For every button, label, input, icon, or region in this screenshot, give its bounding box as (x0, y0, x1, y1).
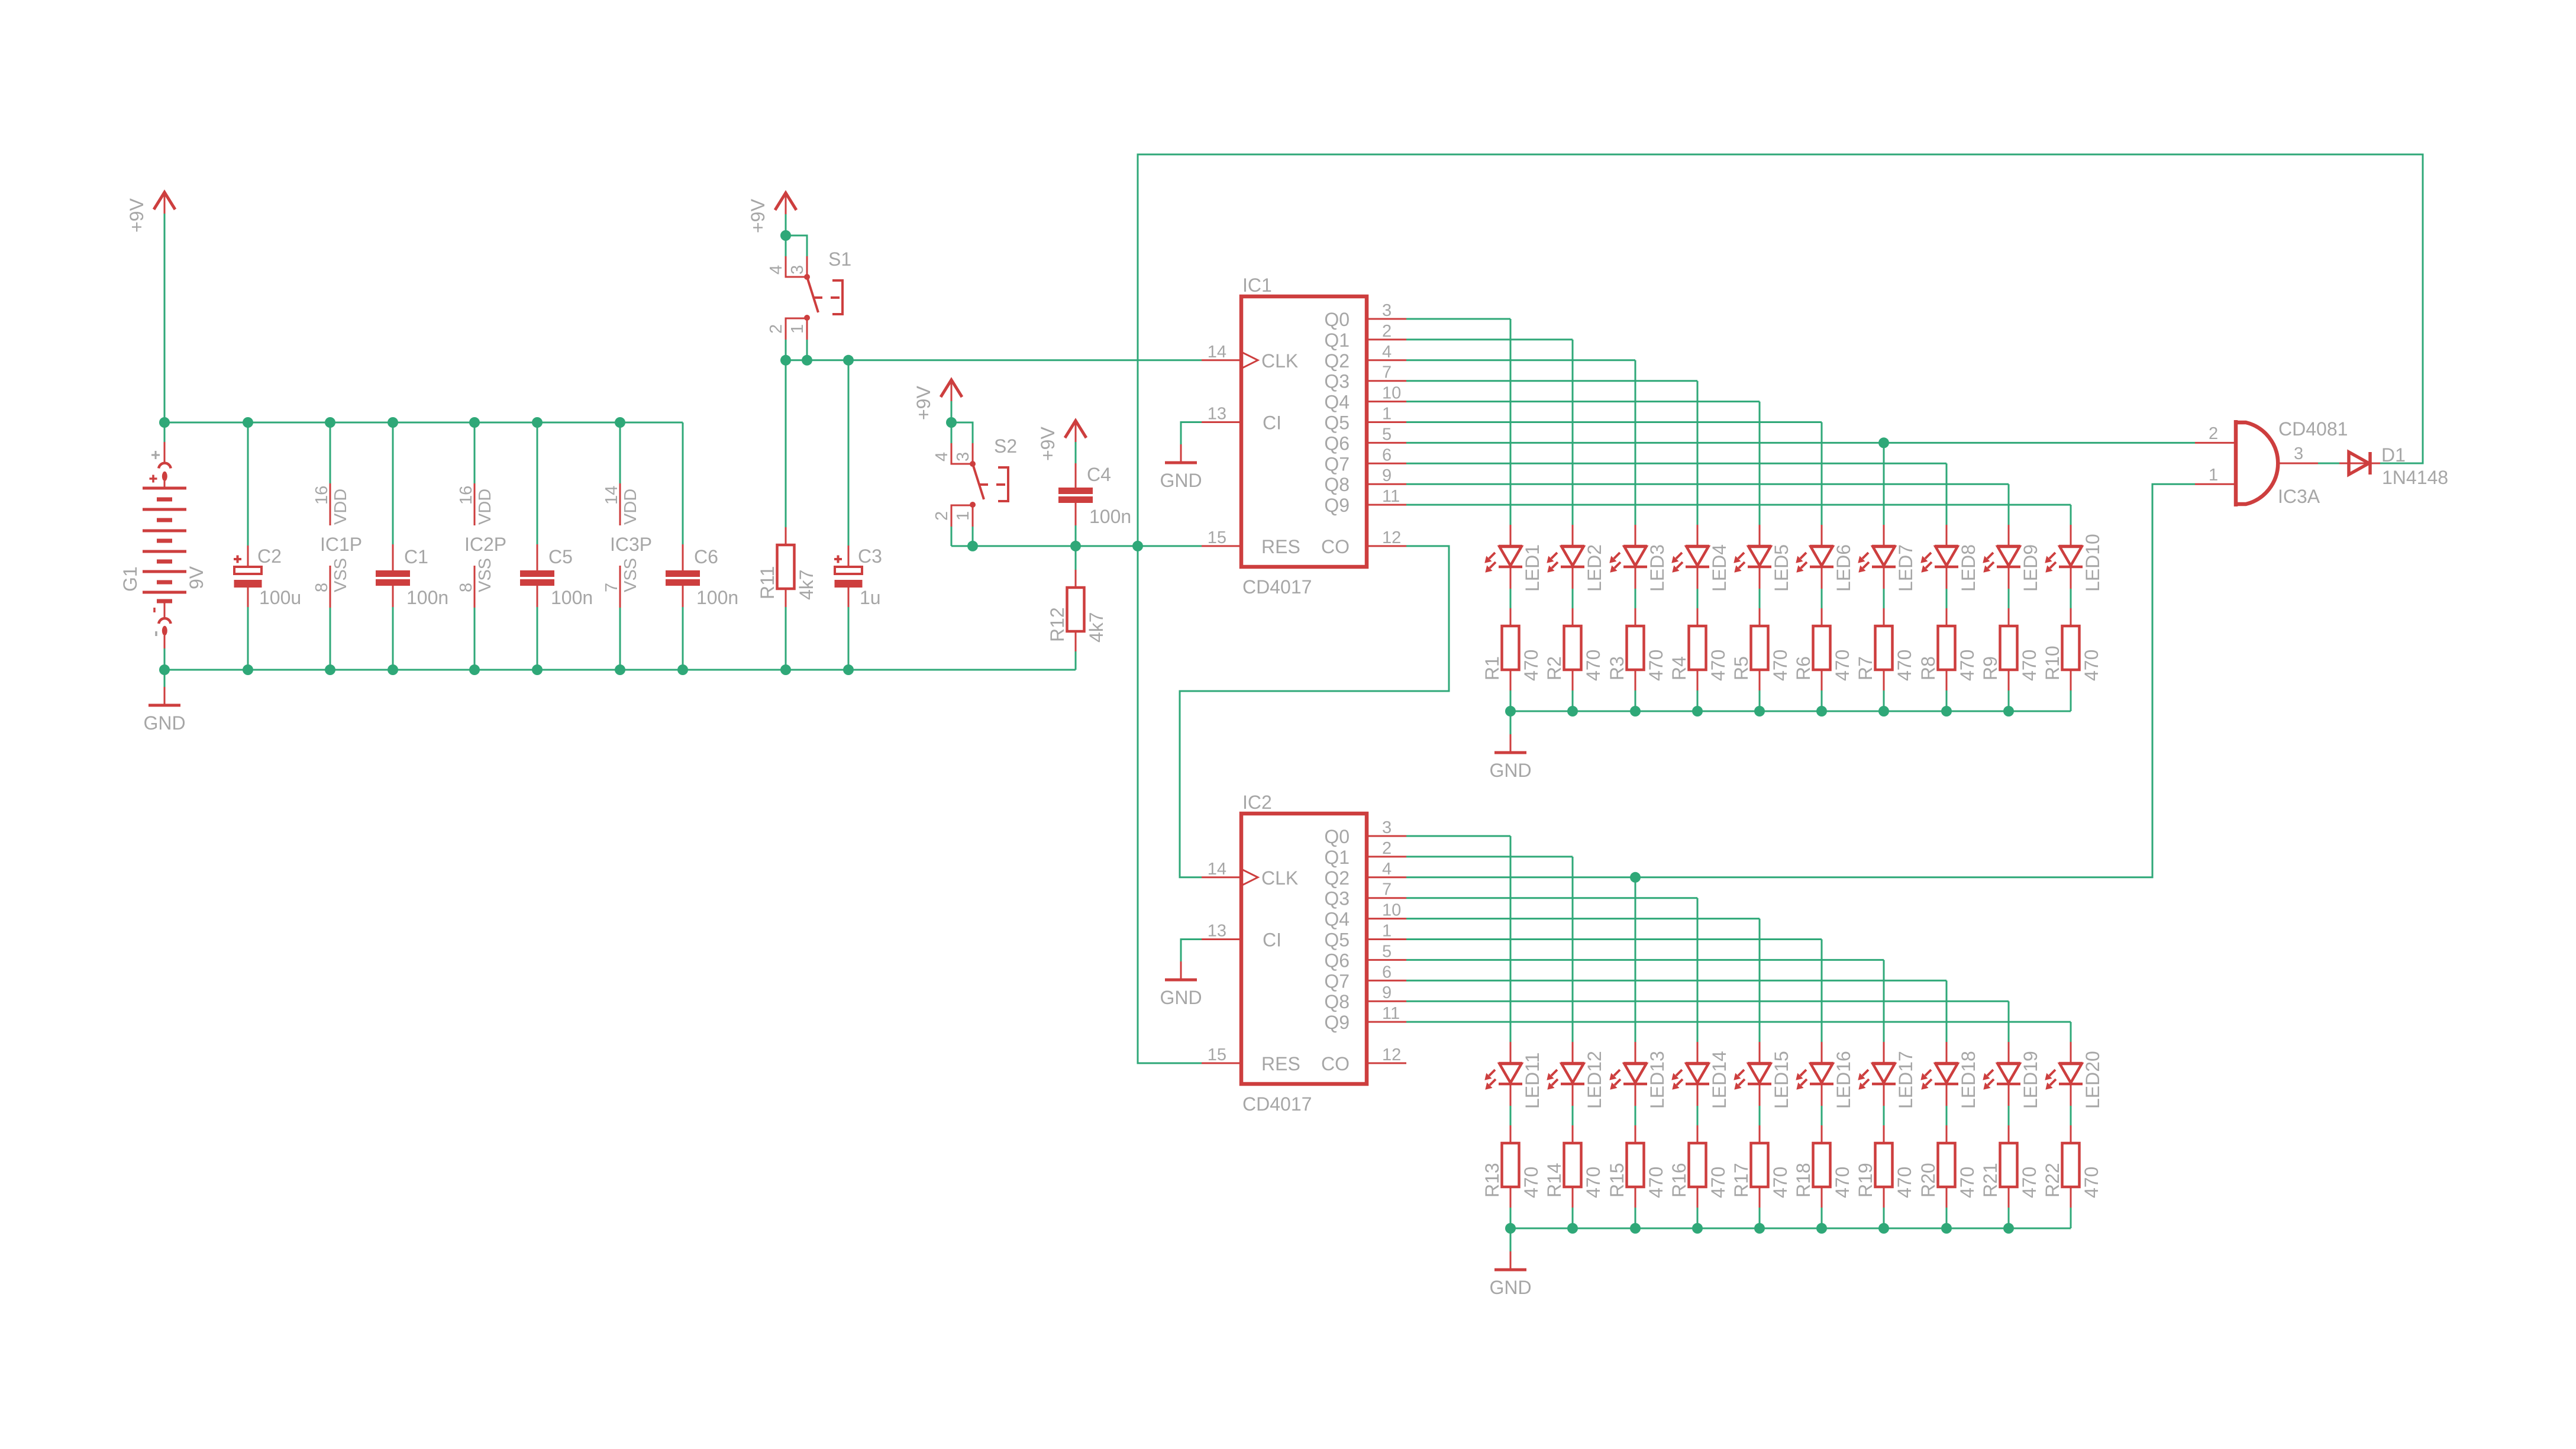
pin 3 output (2278, 463, 2318, 464)
wire R11 bottom (785, 607, 787, 670)
resistor R2 470 (1544, 608, 1604, 690)
svg-text:11: 11 (1382, 487, 1400, 506)
junction CLK1 x=1434 (843, 355, 854, 366)
svg-text:Q1: Q1 (1324, 330, 1350, 351)
svg-text:11: 11 (1382, 1004, 1400, 1023)
resistor R15 470 (1606, 1125, 1667, 1208)
junction +9V rail x=278 (159, 417, 170, 428)
wire LED9 to R9 (2008, 589, 2010, 608)
svg-text:470: 470 (1645, 650, 1667, 681)
LED LED10 (2045, 525, 2103, 592)
wire R1 to GND rail (1510, 690, 1512, 711)
LED LED19 (1983, 1042, 2041, 1109)
resistor R3 470 (1606, 608, 1667, 690)
junction LED GND rail x=3290 (1941, 1223, 1952, 1234)
wire drop to LED18 (1946, 980, 1948, 1042)
svg-text:Q8: Q8 (1324, 991, 1350, 1012)
ground (IC1 CI) (1160, 444, 1202, 491)
wire R4 to GND rail (1697, 690, 1699, 711)
svg-text:R13: R13 (1481, 1163, 1503, 1198)
LED LED4 (1672, 525, 1730, 592)
battery G1 9V (120, 442, 207, 648)
wire drop to LED7 (1883, 443, 1885, 525)
wire Q8 of IC2 to LED19 (1406, 1001, 2009, 1002)
pin 10 Q4 (1367, 401, 1406, 402)
svg-text:VDD: VDD (476, 489, 495, 525)
svg-text:9: 9 (1382, 466, 1392, 485)
power pins IC3P (602, 483, 652, 608)
svg-text:470: 470 (2081, 1167, 2102, 1198)
svg-text:7: 7 (602, 583, 621, 592)
svg-text:CD4017: CD4017 (1242, 1093, 1312, 1115)
svg-text:470: 470 (1770, 650, 1791, 681)
pin 12 CO (1367, 545, 1406, 547)
svg-text:R2: R2 (1544, 656, 1565, 680)
pin 5 Q6 (1367, 442, 1406, 444)
LED LED13 (1610, 1042, 1668, 1109)
wire S2 pin1 to RES net (972, 527, 974, 546)
svg-text:LED3: LED3 (1647, 544, 1668, 592)
wire Q8 of IC1 to LED9 (1406, 483, 2009, 485)
svg-text:470: 470 (1583, 1167, 1604, 1198)
svg-text:470: 470 (2019, 1167, 2040, 1198)
junction LED GND rail x=3184 (1878, 1223, 1889, 1234)
wire C1 top (392, 422, 394, 544)
LED LED8 (1921, 525, 1979, 592)
switch S1 (767, 235, 851, 340)
wire C3 bottom (848, 607, 850, 670)
svg-text:C5: C5 (548, 546, 573, 567)
wire GND stub below battery (164, 670, 166, 687)
junction GND rail x=664 (388, 664, 398, 675)
svg-text:100n: 100n (406, 587, 448, 608)
wire C6 bottom (682, 607, 684, 670)
pin 3 Q0 (1367, 318, 1406, 320)
wire LED20 to R22 (2070, 1106, 2072, 1125)
svg-text:LED19: LED19 (2020, 1051, 2041, 1109)
svg-text:2: 2 (1382, 322, 1392, 341)
svg-text:R12: R12 (1047, 607, 1068, 642)
wire net RES (S2/C4/R12 to IC1 RES) (951, 545, 1202, 547)
svg-text:8: 8 (312, 583, 331, 592)
wire drop to LED4 (1697, 381, 1699, 525)
svg-text:7: 7 (1382, 880, 1392, 899)
svg-text:9V: 9V (186, 566, 207, 589)
svg-text:VSS: VSS (621, 558, 640, 592)
svg-text:VSS: VSS (331, 558, 350, 592)
wire Q4 of IC1 to LED5 (1406, 401, 1760, 402)
pin 1 Q5 (1367, 938, 1406, 940)
wire drop to LED9 (2008, 484, 2010, 525)
wire gate output to D1 (2318, 463, 2339, 464)
svg-text:14: 14 (602, 486, 621, 505)
svg-text:470: 470 (1521, 650, 1542, 681)
svg-text:R16: R16 (1668, 1163, 1690, 1198)
wire R10 to GND rail (2070, 690, 2072, 711)
svg-text:+9V: +9V (747, 199, 769, 233)
wire net CO1 to CLK2 (1180, 546, 1449, 877)
wire LED2 to R2 (1572, 589, 1574, 608)
wire IC1 CI to ground (1181, 422, 1202, 445)
svg-text:1: 1 (788, 324, 807, 334)
wire LED6 to R6 (1821, 589, 1823, 608)
wire C2 bottom (247, 607, 249, 670)
wire Q7 of IC2 to LED18 (1406, 980, 1946, 982)
LED LED11 (1485, 1042, 1543, 1109)
wire C2 top (247, 422, 249, 546)
junction LED GND rail x=2974 (1754, 1223, 1765, 1234)
wire IC2 Q2 to LED13 and gate pin1 (1406, 484, 2195, 877)
wire LED11 to R13 (1510, 1106, 1512, 1125)
wire LED18 to R20 (1946, 1106, 1948, 1125)
junction +9V rail x=802 (469, 417, 480, 428)
wire net GND rail (bank 1-10) (1510, 711, 2071, 712)
wire LED14 to R16 (1697, 1106, 1699, 1125)
resistor R22 470 (2042, 1125, 2102, 1208)
svg-text:13: 13 (1208, 405, 1226, 424)
svg-text:Q7: Q7 (1324, 970, 1350, 992)
junction LED GND rail x=2553 (1505, 1223, 1516, 1234)
wire IC3P bottom (619, 608, 621, 670)
svg-text:C4: C4 (1087, 464, 1111, 485)
resistor R4 470 (1668, 608, 1729, 690)
wire Q6 of IC2 to LED17 (1406, 959, 1884, 961)
wire GND stub (1510, 1228, 1512, 1251)
wire R8 to GND rail (1946, 690, 1948, 711)
svg-text:4k7: 4k7 (796, 569, 817, 600)
svg-text:16: 16 (312, 486, 331, 505)
wire battery plus (164, 422, 166, 442)
svg-text:470: 470 (1957, 650, 1978, 681)
svg-text:D1: D1 (2381, 444, 2406, 466)
wire LED12 to R14 (1572, 1106, 1574, 1125)
wire drop to LED14 (1697, 898, 1699, 1042)
wire R6 to GND rail (1821, 690, 1823, 711)
junction LED GND rail x=2764 (1630, 1223, 1641, 1234)
wire R15 to GND rail (1635, 1208, 1636, 1228)
svg-text:1u: 1u (860, 587, 881, 608)
LED LED9 (1983, 525, 2041, 592)
svg-text:1: 1 (2209, 466, 2218, 485)
svg-text:2: 2 (932, 511, 951, 521)
wire R20 to GND rail (1946, 1208, 1948, 1228)
svg-text:4: 4 (1382, 860, 1392, 879)
op-amp style AND gate IC3A (CD4081) (2195, 418, 2348, 507)
wire C5 bottom (537, 607, 538, 670)
pin 10 Q4 (1367, 918, 1406, 919)
svg-text:R19: R19 (1855, 1163, 1876, 1198)
svg-text:IC1P: IC1P (320, 534, 362, 555)
wire S2 pin2 to RES net (951, 527, 953, 546)
svg-text:R21: R21 (1980, 1163, 2001, 1198)
svg-text:8: 8 (457, 583, 476, 592)
svg-text:Q6: Q6 (1324, 433, 1350, 454)
junction LED GND rail x=2974 (1754, 706, 1765, 717)
wire Q3 of IC2 to LED14 (1406, 897, 1697, 899)
pin 2 Q1 (1367, 338, 1406, 340)
svg-text:CI: CI (1263, 412, 1281, 434)
junction RES x=1644 (967, 541, 978, 551)
junction +9V rail x=1048 (615, 417, 625, 428)
wire R16 to GND rail (1697, 1208, 1699, 1228)
wire Q9 of IC2 to LED20 (1406, 1021, 2071, 1023)
wire R18 to GND rail (1821, 1208, 1823, 1228)
wire Q2 of IC1 to LED3 (1406, 359, 1635, 361)
svg-text:470: 470 (1583, 650, 1604, 681)
svg-text:3: 3 (1382, 818, 1392, 837)
svg-text:470: 470 (1707, 650, 1729, 681)
pin 4 Q2 (1367, 876, 1406, 878)
svg-text:4k7: 4k7 (1086, 612, 1107, 643)
capacitor C1 (376, 544, 448, 608)
wire net feedback (D1 to RES2) (1138, 154, 2423, 1063)
svg-text:LED14: LED14 (1709, 1051, 1730, 1109)
wire R11 top (785, 360, 787, 528)
svg-text:C6: C6 (694, 546, 718, 567)
wire C4 bottom (1075, 525, 1077, 546)
junction GND rail x=419 (243, 664, 253, 675)
junction LED GND rail x=2658 (1567, 706, 1578, 717)
LED LED1 (1485, 525, 1543, 592)
LED LED3 (1610, 525, 1668, 592)
power pins IC2P (457, 483, 506, 608)
svg-text:15: 15 (1208, 528, 1226, 547)
svg-text:VDD: VDD (621, 489, 640, 525)
svg-text:Q0: Q0 (1324, 826, 1350, 847)
wire R13 to GND rail (1510, 1208, 1512, 1228)
junction LED GND rail x=3079 (1816, 706, 1827, 717)
svg-text:Q0: Q0 (1324, 309, 1350, 330)
wire LED15 to R17 (1759, 1106, 1761, 1125)
junction LED GND rail x=3079 (1816, 1223, 1827, 1234)
junction +9V rail x=419 (243, 417, 253, 428)
junction Q6/LED7 (1878, 437, 1889, 448)
power symbol +9V (S2) (913, 380, 962, 422)
svg-text:LED17: LED17 (1895, 1051, 1916, 1109)
pin 1 input (2195, 483, 2236, 485)
resistor R7 470 (1855, 608, 1915, 690)
wire R12 top (1075, 546, 1077, 571)
pin 11 Q9 (1367, 504, 1406, 506)
svg-text:15: 15 (1208, 1045, 1226, 1064)
svg-text:+9V: +9V (126, 198, 147, 233)
svg-text:LED1: LED1 (1522, 544, 1543, 592)
wire LED7 to R7 (1883, 589, 1885, 608)
wire +9V arrow to top rail (164, 214, 166, 422)
svg-text:R17: R17 (1731, 1163, 1752, 1198)
svg-text:470: 470 (1770, 1167, 1791, 1198)
svg-text:470: 470 (1521, 1167, 1542, 1198)
wire R12 bottom (1075, 651, 1077, 670)
pin 2 Q1 (1367, 856, 1406, 857)
junction LED GND rail x=2553 (1505, 706, 1516, 717)
svg-text:RES: RES (1261, 1053, 1300, 1074)
wire drop to LED12 (1572, 857, 1574, 1042)
wire drop to LED2 (1572, 340, 1574, 525)
junction +9V rail x=664 (388, 417, 398, 428)
svg-text:IC3A: IC3A (2278, 486, 2320, 507)
svg-text:LED9: LED9 (2020, 544, 2041, 592)
IC U2: IC2 CD4017 (1202, 792, 1406, 1115)
pin 7 Q3 (1367, 380, 1406, 382)
svg-text:470: 470 (2019, 650, 2040, 681)
svg-text:470: 470 (1894, 650, 1915, 681)
junction LED GND rail x=3290 (1941, 706, 1952, 717)
svg-text:CD4081: CD4081 (2278, 418, 2348, 440)
diode D1 1N4148 (2339, 444, 2448, 488)
svg-text:Q6: Q6 (1324, 950, 1350, 971)
svg-text:+9V: +9V (1037, 427, 1058, 461)
svg-text:4: 4 (932, 452, 951, 462)
svg-text:6: 6 (1382, 963, 1392, 982)
wire drop to LED20 (2070, 1022, 2072, 1042)
LED LED5 (1734, 525, 1792, 592)
wire IC1P bottom (330, 608, 331, 670)
wire drop to LED3 (1635, 360, 1636, 525)
svg-text:100n: 100n (1089, 506, 1131, 527)
junction +9V S2 (946, 417, 957, 428)
svg-text:Q2: Q2 (1324, 867, 1350, 889)
svg-text:Q8: Q8 (1324, 474, 1350, 495)
svg-text:470: 470 (1832, 1167, 1853, 1198)
svg-text:+9V: +9V (913, 386, 934, 420)
LED LED7 (1858, 525, 1916, 592)
wire LED3 to R3 (1635, 589, 1636, 608)
wire drop to LED19 (2008, 1001, 2010, 1042)
wire LED19 to R21 (2008, 1106, 2010, 1125)
pin 1 Q5 (1367, 421, 1406, 423)
wire R19 to GND rail (1883, 1208, 1885, 1228)
svg-text:9: 9 (1382, 983, 1392, 1002)
ground (battery) (143, 687, 185, 734)
svg-text:LED5: LED5 (1771, 544, 1792, 592)
power symbol +9V (S1) (747, 193, 796, 235)
resistor R10 470 (2042, 608, 2102, 690)
wire S1 pin1 to CLK net (806, 340, 808, 360)
junction RES x=1923 (1132, 541, 1143, 551)
wire R17 to GND rail (1759, 1208, 1761, 1228)
svg-text:R3: R3 (1606, 656, 1628, 680)
wire C5 top (537, 422, 538, 544)
wire R14 to GND rail (1572, 1208, 1574, 1228)
svg-text:LED16: LED16 (1833, 1051, 1854, 1109)
wire Q0 of IC2 to LED11 (1406, 835, 1510, 837)
svg-text:10: 10 (1382, 901, 1401, 920)
svg-text:3: 3 (2294, 444, 2303, 463)
svg-text:GND: GND (1489, 1277, 1531, 1298)
svg-text:470: 470 (2081, 650, 2102, 681)
svg-text:Q9: Q9 (1324, 495, 1350, 516)
resistor R20 470 (1918, 1125, 1978, 1208)
svg-text:CD4017: CD4017 (1242, 576, 1312, 598)
wire LED13 to R15 (1635, 1106, 1636, 1125)
svg-text:10: 10 (1382, 384, 1401, 403)
svg-text:LED12: LED12 (1584, 1051, 1605, 1109)
wire Q1 of IC1 to LED2 (1406, 338, 1573, 340)
svg-text:CO: CO (1321, 536, 1350, 557)
svg-text:470: 470 (1832, 650, 1853, 681)
wire LED4 to R4 (1697, 589, 1699, 608)
svg-text:Q9: Q9 (1324, 1012, 1350, 1033)
junction LED GND rail x=2658 (1567, 1223, 1578, 1234)
wire drop to LED16 (1821, 940, 1823, 1043)
wire net GND bottom rail (164, 669, 1076, 671)
svg-text:R8: R8 (1918, 656, 1939, 680)
svg-text:IC3P: IC3P (610, 534, 652, 555)
pin 3 Q0 (1367, 835, 1406, 837)
wire Q0 of IC1 to LED1 (1406, 318, 1510, 320)
wire drop to LED8 (1946, 463, 1948, 525)
svg-text:12: 12 (1382, 528, 1401, 547)
svg-text:GND: GND (1160, 987, 1202, 1008)
wire GND stub (1510, 711, 1512, 734)
svg-text:LED10: LED10 (2082, 534, 2103, 592)
svg-text:14: 14 (1208, 860, 1226, 879)
wire Q5 of IC2 to LED16 (1406, 938, 1822, 940)
resistor R21 470 (1980, 1125, 2040, 1208)
wire drop to LED15 (1759, 919, 1761, 1042)
svg-text:R10: R10 (2042, 646, 2063, 680)
wire C1 bottom (392, 607, 394, 670)
pin 15 RES (1202, 545, 1241, 547)
svg-text:R5: R5 (1731, 656, 1752, 680)
svg-text:LED2: LED2 (1584, 544, 1605, 592)
power pins IC1P (312, 483, 362, 608)
wire S1 pin2 to CLK net (785, 340, 787, 360)
svg-text:LED11: LED11 (1522, 1053, 1543, 1109)
wire net GND rail (bank 11-20) (1510, 1228, 2071, 1229)
svg-text:S2: S2 (994, 435, 1017, 457)
pin 6 Q7 (1367, 980, 1406, 982)
ground (LED bank 11-20) (1489, 1251, 1531, 1298)
pin 13 CI (1202, 938, 1241, 940)
junction LED GND rail x=2764 (1630, 706, 1641, 717)
svg-text:Q7: Q7 (1324, 453, 1350, 475)
capacitor C2 (234, 546, 301, 608)
wire C4 top pin (1075, 463, 1077, 488)
junction GND rail x=558 (325, 664, 335, 675)
junction +9V rail x=908 (532, 417, 543, 428)
wire drop to LED13 (1635, 877, 1636, 1042)
junction LED GND rail x=3395 (2003, 1223, 2014, 1234)
capacitor C6 (666, 544, 738, 608)
svg-text:R9: R9 (1980, 656, 2001, 680)
junction GND rail x=802 (469, 664, 480, 675)
pin 11 Q9 (1367, 1021, 1406, 1023)
LED LED12 (1547, 1042, 1605, 1109)
capacitor C4 100n (1058, 464, 1131, 527)
svg-text:R22: R22 (2042, 1163, 2063, 1198)
svg-text:CO: CO (1321, 1053, 1350, 1074)
svg-text:R11: R11 (757, 566, 778, 599)
svg-text:5: 5 (1382, 425, 1392, 444)
wire R3 to GND rail (1635, 690, 1636, 711)
svg-text:1N4148: 1N4148 (2382, 467, 2448, 488)
LED LED20 (2045, 1042, 2103, 1109)
wire R9 to GND rail (2008, 690, 2010, 711)
svg-text:16: 16 (457, 486, 476, 505)
svg-text:LED4: LED4 (1709, 544, 1730, 592)
svg-text:470: 470 (1957, 1167, 1978, 1198)
wire R21 to GND rail (2008, 1208, 2010, 1228)
svg-text:2: 2 (1382, 839, 1392, 858)
svg-text:4: 4 (1382, 343, 1392, 362)
svg-text:IC2P: IC2P (464, 534, 506, 555)
LED LED16 (1796, 1042, 1854, 1109)
switch S2 (932, 422, 1017, 527)
junction CLK1 x=1328 (780, 355, 791, 366)
resistor R1 470 (1481, 608, 1542, 690)
